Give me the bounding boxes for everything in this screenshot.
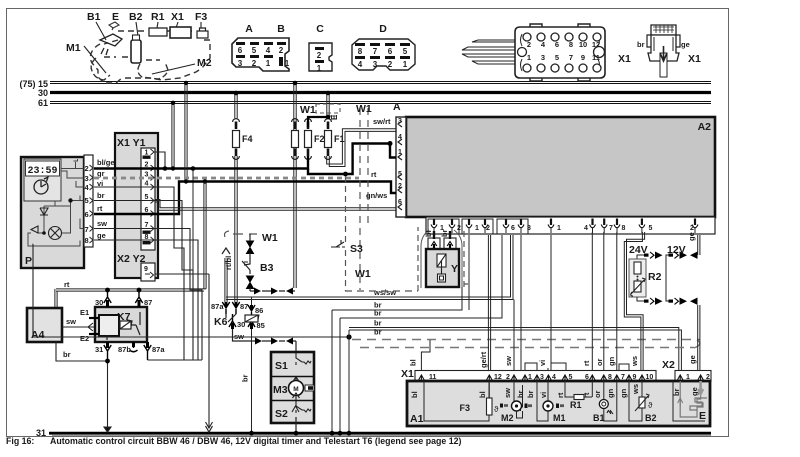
- svg-text:R2: R2: [648, 271, 662, 283]
- R2 dots: [637, 276, 639, 278]
- W1 dashed boundary horizontal: [345, 290, 418, 292]
- svg-text:br: br: [637, 40, 645, 49]
- junction dot K7-87: [137, 288, 142, 293]
- svg-text:X1 Y1: X1 Y1: [117, 137, 146, 149]
- K7 pin 87b: [118, 342, 138, 354]
- svg-text:or: or: [595, 358, 604, 366]
- P clock icon: [34, 177, 48, 194]
- ge wire arrow top: [690, 252, 698, 259]
- K7 pin 87a: [144, 342, 166, 360]
- br wire A4 bottom: [56, 342, 108, 361]
- svg-text:2: 2: [457, 225, 461, 232]
- P internal wires: [28, 159, 84, 246]
- thick wire step to A2 pins 4+1: [308, 144, 390, 175]
- X1 12-pin numbers: [527, 40, 600, 62]
- gr dashed wire from P pin3: [94, 177, 359, 180]
- E glow plug compartment: [673, 381, 705, 421]
- pin1 jog wire: [155, 152, 165, 169]
- svg-text:F2: F2: [314, 134, 325, 144]
- svg-text:5: 5: [649, 225, 653, 232]
- rt line to A4/K7 branch: [55, 182, 206, 309]
- svg-text:6: 6: [511, 225, 515, 232]
- P internal lamp: [49, 227, 62, 240]
- wire A2 pin4 down rt: [591, 232, 593, 372]
- R1 resistor: [565, 381, 592, 410]
- fuse F4 body: [233, 131, 253, 148]
- B3 wire bottom to vent line: [249, 288, 251, 291]
- svg-text:sw: sw: [503, 388, 512, 398]
- vi wire riser: [94, 187, 184, 360]
- svg-text:C: C: [316, 23, 324, 35]
- wire A2 pin6g down sw: [513, 300, 515, 373]
- X1 strip pins: [419, 375, 645, 381]
- wire A2 pin1 single down: [550, 235, 552, 363]
- svg-text:3: 3: [145, 172, 149, 179]
- svg-text:A1: A1: [410, 413, 424, 425]
- svg-text:X2: X2: [662, 359, 675, 371]
- thick branch to A2 pin 1: [390, 144, 396, 158]
- chain line 2 with end arc: [360, 347, 694, 349]
- svg-text:Fig 16:: Fig 16:: [6, 436, 34, 446]
- X2Y2 pin 9 box: [141, 263, 155, 281]
- svg-text:E1: E1: [80, 308, 89, 317]
- connector A pins: [236, 42, 273, 68]
- svg-text:bl: bl: [424, 230, 433, 237]
- svg-text:3: 3: [238, 59, 243, 68]
- B3 wire top: [249, 234, 251, 259]
- B2 part: [131, 35, 141, 63]
- K7 pin 87: [135, 290, 152, 307]
- E br arrow: [678, 398, 683, 406]
- fuse F1 body: [325, 131, 345, 148]
- M2 motor: [501, 381, 532, 423]
- wire A2 pin5 to ws column: [624, 232, 644, 372]
- K7 pin 30: [95, 290, 111, 307]
- K6 pin 86: [248, 305, 255, 315]
- K6-85 br ground wire down: [251, 329, 253, 432]
- svg-text:X1: X1: [618, 53, 631, 65]
- br3 double line to X2-1: [349, 328, 681, 372]
- B3 switch: [242, 259, 250, 274]
- X1Y1 pin column: [141, 148, 155, 250]
- A4 box: [27, 308, 62, 342]
- S2 wire to rail: [295, 417, 297, 432]
- wire A2 pin2g down gert: [488, 235, 490, 372]
- K6 pin 87: [232, 302, 239, 314]
- ge wire riser P pin8: [94, 240, 198, 360]
- X1 small connector wire: [660, 53, 667, 77]
- leader lines: [84, 22, 201, 74]
- svg-text:br: br: [63, 350, 71, 359]
- svg-text:6: 6: [85, 210, 89, 219]
- svg-text:rt: rt: [97, 204, 103, 213]
- svg-text:S1: S1: [275, 360, 288, 372]
- svg-text:7: 7: [569, 53, 573, 62]
- svg-text:bl/ge: bl/ge: [97, 158, 115, 167]
- svg-text:87: 87: [240, 302, 248, 311]
- svg-text:gn: gn: [619, 388, 628, 398]
- bl/ge branch down: [192, 169, 194, 271]
- svg-text:br: br: [374, 309, 382, 318]
- svg-text:2: 2: [486, 225, 490, 232]
- E part: [109, 22, 119, 28]
- wire A2 pin8 down gn: [616, 232, 618, 372]
- junction dot at F1 wire: [326, 115, 331, 120]
- P pin numbers and arrows: [85, 164, 90, 245]
- riser bus15 wire arrow join: [294, 290, 296, 292]
- svg-text:D: D: [379, 23, 387, 35]
- fuse F2 body: [305, 131, 325, 148]
- svg-text:8: 8: [622, 225, 626, 232]
- thick rt wire P pin6 to A2 pin 2: [94, 182, 396, 215]
- svg-text:gn: gn: [607, 356, 616, 366]
- svg-text:M2: M2: [501, 413, 514, 423]
- svg-text:rt: rt: [582, 360, 591, 366]
- svg-text:M2: M2: [197, 57, 212, 69]
- X1 part: [170, 27, 191, 38]
- heater unit pictorial (dashed): [90, 31, 210, 83]
- bus 30: [50, 91, 711, 94]
- rail junction dots: [249, 431, 351, 436]
- svg-text:30: 30: [38, 88, 48, 98]
- M1 motor: [537, 381, 566, 423]
- K7 contact: [107, 312, 140, 340]
- A1 inner compartment line: [424, 381, 489, 421]
- svg-text:M3: M3: [273, 384, 288, 396]
- long br ground line y337: [33, 336, 349, 338]
- left frame ground riser: [32, 244, 34, 337]
- svg-text:W1: W1: [356, 103, 372, 115]
- svg-text:1: 1: [527, 53, 531, 62]
- svg-text:sw/rt: sw/rt: [373, 117, 391, 126]
- svg-text:9: 9: [144, 266, 148, 273]
- svg-text:vi: vi: [538, 360, 547, 366]
- svg-text:3: 3: [85, 174, 89, 183]
- svg-text:or: or: [593, 390, 602, 398]
- svg-text:A: A: [245, 23, 253, 35]
- svg-text:B3: B3: [260, 262, 274, 274]
- svg-text:2: 2: [690, 225, 694, 232]
- K6-86 riser to ws/sw: [226, 297, 252, 305]
- svg-text:S2: S2: [275, 408, 288, 420]
- svg-text:br: br: [516, 390, 525, 398]
- svg-text:B1: B1: [593, 413, 605, 423]
- F3 fuse: [459, 398, 508, 415]
- A2 bottom pin arrows: [431, 219, 698, 234]
- svg-text:A: A: [393, 101, 401, 113]
- svg-text:bl: bl: [410, 391, 419, 398]
- wire A2 pin1g down to br1: [468, 235, 470, 310]
- Y dashed enclosure: [418, 227, 468, 291]
- staple pins 1-3: [525, 363, 537, 372]
- P display sub-box: [24, 159, 61, 201]
- Y coil ground wire: [442, 287, 463, 310]
- bus 61: [50, 102, 711, 104]
- sw wire riser P pin7: [94, 229, 202, 361]
- connector C pins: [315, 47, 324, 73]
- svg-text:87a: 87a: [152, 345, 165, 354]
- ECU A2 box: [406, 117, 715, 217]
- fuse F2 terminals: [305, 119, 312, 122]
- svg-text:1: 1: [266, 59, 271, 68]
- W1 dashed boundary verticals: [360, 108, 368, 290]
- svg-text:5: 5: [85, 196, 89, 205]
- K7 pin 31: [95, 342, 111, 361]
- svg-text:sw: sw: [66, 317, 76, 326]
- X1 12-pin harness wires: [462, 40, 515, 64]
- ge wire from A2 pin 2: [698, 235, 700, 255]
- relay K7 box: [95, 307, 147, 342]
- A2 left pin column: [396, 117, 406, 217]
- X1 12-pin mid circles: [518, 47, 605, 58]
- R2 top wire and arrows: [637, 252, 663, 260]
- svg-text:2: 2: [317, 51, 322, 60]
- sw wire A4 to K7: [62, 323, 95, 331]
- svg-text:rt: rt: [556, 392, 565, 398]
- svg-text:X1: X1: [688, 53, 701, 65]
- svg-text:E: E: [330, 114, 339, 120]
- svg-text:E: E: [112, 11, 119, 23]
- svg-text:W1: W1: [300, 104, 316, 116]
- svg-text:B2: B2: [129, 11, 143, 23]
- junction dot K7-30: [105, 288, 110, 293]
- svg-text:87a: 87a: [211, 302, 224, 311]
- svg-text:8: 8: [569, 40, 573, 49]
- wire F1 bottom loop to sw/rt: [327, 129, 396, 167]
- X2 strip pins: [677, 375, 703, 381]
- X1 strip pin numbers: [429, 374, 653, 381]
- svg-text:rt: rt: [64, 280, 70, 289]
- Y box: [426, 249, 459, 287]
- thick wire X1Y1 pin2 to F2 bottom: [94, 156, 308, 169]
- B2 temp sensor: [629, 381, 657, 423]
- bus 31 shadow: [52, 434, 711, 436]
- K6 coil: [245, 315, 258, 322]
- ge wire arrow bottom: [690, 298, 698, 305]
- svg-text:B1: B1: [87, 11, 101, 23]
- fuse F5 terminals: [292, 119, 299, 122]
- svg-text:ϑ: ϑ: [648, 401, 653, 410]
- relay K6: [211, 302, 265, 330]
- svg-text:3: 3: [527, 225, 531, 232]
- X2 strip numbers: [686, 374, 710, 381]
- br3 drop to rail: [348, 330, 350, 432]
- svg-text:2: 2: [279, 46, 284, 55]
- 12V jumper bottom: [666, 259, 687, 305]
- heater M1 blob dashed: [91, 58, 110, 80]
- svg-text:9: 9: [581, 53, 585, 62]
- svg-text:ge: ge: [681, 40, 690, 49]
- svg-text:1: 1: [557, 225, 561, 232]
- svg-text:E2: E2: [80, 334, 89, 343]
- R1 part: [149, 28, 167, 36]
- svg-text:M1: M1: [553, 413, 566, 423]
- svg-text:8: 8: [85, 236, 89, 245]
- A2 left pins 3,4,1,5,2,6: [398, 118, 402, 206]
- wire F4 down to B3 area: [235, 156, 237, 302]
- connector D pins: [355, 43, 410, 69]
- svg-text:61: 61: [38, 98, 48, 108]
- svg-text:E: E: [699, 410, 706, 422]
- Y pin boxes: [428, 238, 456, 249]
- svg-text:1: 1: [317, 64, 322, 73]
- svg-text:6: 6: [238, 46, 243, 55]
- B1 flame sensor: [593, 381, 617, 423]
- svg-text:gn/ws: gn/ws: [366, 191, 387, 200]
- X1 12-pin top row circles: [523, 33, 601, 41]
- svg-text:M1: M1: [66, 42, 81, 54]
- P pin strip: [84, 155, 93, 247]
- K6 pin 85: [248, 315, 255, 327]
- svg-text:ws: ws: [630, 356, 639, 367]
- wire bus30 to F1: [326, 91, 331, 118]
- K6 contact: [226, 314, 236, 322]
- br1 line: [332, 287, 462, 310]
- chain line 1: [352, 339, 700, 341]
- svg-text:30: 30: [95, 298, 103, 307]
- svg-text:ge: ge: [688, 355, 697, 364]
- svg-text:br: br: [97, 191, 105, 200]
- svg-text:R1: R1: [151, 11, 165, 23]
- K7 coil symbol: [120, 320, 132, 329]
- svg-text:br: br: [374, 328, 382, 337]
- svg-text:1: 1: [475, 225, 479, 232]
- W1 dashed stub left: [225, 231, 258, 237]
- S3 switch: [331, 240, 345, 247]
- E glow element: [680, 381, 707, 417]
- svg-text:4: 4: [358, 60, 363, 69]
- br4 junction dot: [346, 334, 351, 339]
- P internal LED: [31, 226, 46, 235]
- svg-text:W1: W1: [262, 232, 278, 244]
- svg-text:23:59: 23:59: [27, 166, 57, 177]
- svg-text:2: 2: [252, 59, 257, 68]
- P digital display 23:59: [26, 161, 60, 177]
- svg-text:F1: F1: [334, 134, 345, 144]
- connector X1 12-pin body: [515, 24, 605, 81]
- svg-text:7: 7: [373, 47, 378, 56]
- svg-text:ws: ws: [631, 384, 640, 395]
- svg-text:4: 4: [584, 225, 588, 232]
- K7 E1 pin: [80, 308, 99, 318]
- svg-text:31: 31: [95, 345, 103, 354]
- svg-text:ge: ge: [687, 232, 696, 241]
- svg-text:sw: sw: [234, 332, 244, 341]
- svg-text:ge/rt: ge/rt: [479, 351, 488, 368]
- wire bus30 to F4: [234, 91, 239, 118]
- svg-text:P: P: [25, 255, 32, 267]
- svg-text:11: 11: [592, 53, 600, 62]
- sw line from K6-30: [233, 329, 297, 341]
- svg-text:7: 7: [609, 225, 613, 232]
- S1 M3 S2 box: [271, 352, 314, 423]
- br ground line y368 join riser: [208, 367, 210, 369]
- ws/sw line: [226, 235, 513, 300]
- br2 drop to rail: [339, 318, 341, 432]
- bus 15: [50, 82, 711, 84]
- W1 dashed connector box with E: [316, 104, 340, 113]
- junction dot pin1-pin2: [163, 166, 168, 171]
- fuse F4 terminals: [233, 119, 240, 122]
- fuse F1 terminals: [325, 119, 332, 122]
- svg-text:5: 5: [403, 47, 408, 56]
- svg-text:31: 31: [36, 428, 46, 438]
- M3 motor: [289, 377, 315, 400]
- A2 bottom group brackets: [428, 219, 528, 234]
- Y plug outline: [421, 230, 462, 288]
- svg-text:B: B: [277, 23, 285, 35]
- svg-text:1: 1: [145, 150, 149, 157]
- R2 resistor: [634, 262, 641, 274]
- B3 connector arrows bottom: [247, 276, 254, 289]
- wire bus15 down to vent line: [293, 81, 298, 288]
- vent line y291 with connector arrows: [250, 288, 295, 295]
- wire X2Y2 pin9 down: [155, 274, 213, 428]
- K6 pin 30: [229, 314, 236, 327]
- E strikethrough mark: [327, 114, 339, 120]
- X1 connector strip: [415, 371, 656, 382]
- svg-text:sw: sw: [97, 219, 107, 228]
- K6 pin 87a riser: [222, 248, 230, 302]
- svg-text:86: 86: [255, 306, 263, 315]
- ge wire down to X2 pin2: [698, 305, 700, 371]
- Y wires from A2 pins: [434, 231, 450, 239]
- rail arrow at 209: [206, 426, 213, 432]
- A2 bottom pin numbers: [440, 225, 694, 232]
- R2 bottom wire and arrows: [637, 297, 663, 305]
- svg-text:B2: B2: [645, 413, 657, 423]
- P junction dot internal: [68, 198, 72, 202]
- S1 switch: [296, 353, 311, 365]
- connector C outline: [309, 43, 332, 71]
- svg-text:2: 2: [85, 164, 89, 173]
- thick jumper F2-top to F1 line: [308, 117, 328, 127]
- svg-text:2: 2: [388, 60, 393, 69]
- svg-text:4: 4: [266, 46, 271, 55]
- wire bus61 tap down: [171, 101, 175, 171]
- svg-text:F3: F3: [459, 403, 470, 413]
- A1 box: [407, 381, 710, 426]
- connector A+B outline: [232, 38, 289, 71]
- junction dot br-31: [105, 359, 110, 364]
- K7 E2 pin: [80, 334, 99, 343]
- timer P box: [21, 157, 84, 268]
- svg-text:br: br: [374, 319, 382, 328]
- Y pin arrows: [431, 242, 453, 247]
- staple pins 7-9: [619, 364, 629, 372]
- svg-text:87b: 87b: [118, 345, 131, 354]
- br ground drop to rail: [104, 361, 111, 432]
- S2 switch: [292, 401, 311, 413]
- svg-text:Y: Y: [451, 263, 458, 275]
- junction dot thick line S3: [343, 172, 348, 177]
- S3 dashed drop: [345, 176, 347, 291]
- fuse F2a body: [292, 131, 299, 148]
- A2 bottom pin strip: [426, 217, 715, 234]
- svg-text:S3: S3: [350, 243, 363, 255]
- svg-text:2: 2: [527, 40, 531, 49]
- svg-text:30: 30: [237, 320, 245, 329]
- svg-text:ϑ: ϑ: [494, 405, 499, 414]
- svg-text:ge: ge: [97, 231, 106, 240]
- svg-text:ge: ge: [690, 387, 699, 396]
- svg-text:M: M: [293, 386, 298, 393]
- junction dot at 390: [388, 141, 393, 146]
- svg-text:rt: rt: [371, 170, 377, 179]
- svg-text:X1: X1: [171, 11, 184, 23]
- connector B pins: [277, 42, 290, 68]
- E ge feed thick: [698, 381, 703, 394]
